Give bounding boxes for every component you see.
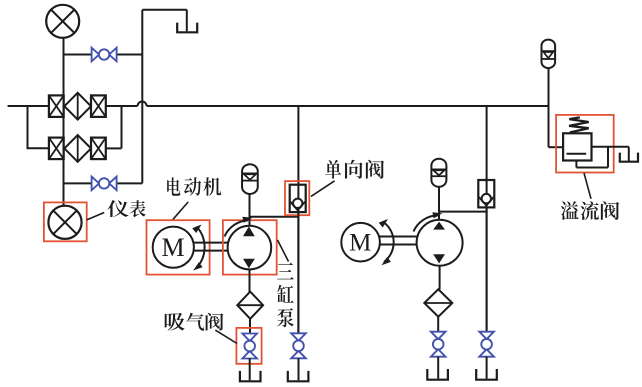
shaft coupling M2-P2 (380, 237, 417, 245)
wire: accumulator A1 to pump P1 top (249, 194, 251, 226)
flow meter FM2 left box (49, 138, 64, 160)
wire: P2 outlet branch to check valve CV2 (439, 211, 487, 213)
accumulator A2 (431, 159, 446, 187)
red highlight box: motor M1 (147, 220, 210, 274)
suction filter F2 (424, 289, 452, 316)
motor M1 letter (161, 233, 184, 262)
suction valve SV2 (blue) (431, 332, 446, 357)
triplex pump P1 circle (228, 226, 272, 270)
wire: main line down through check valve CV2 (486, 106, 488, 332)
wire: P1 outlet branch to check valve CV1 (250, 216, 299, 218)
pump P1 inlet triangle (down) (243, 259, 255, 269)
label 溢流阀 (561, 201, 619, 220)
callout line from 吸气阀 label (215, 330, 237, 343)
wire: main header line right of jump (147, 105, 549, 107)
relief valve body (563, 133, 591, 160)
flow meter FM1 diamond (64, 93, 91, 120)
wire: SV1 to tank T1 (249, 358, 251, 380)
red highlight box: 单向阀 (285, 181, 309, 215)
globe valve V2 (blue) (92, 177, 117, 191)
callout line to 溢流阀 label (584, 173, 591, 199)
wire: FM2 right link up to main line (106, 106, 122, 148)
flow meter FM1 left box (49, 95, 64, 117)
callout line to 单向阀 label (311, 181, 335, 197)
check valve CV1 (290, 185, 306, 212)
callout line to 仪表 label (87, 213, 105, 220)
svg-text:M: M (349, 230, 371, 257)
drain valve DV2 (blue) (479, 332, 494, 357)
svg-text:M: M (161, 233, 184, 262)
flow meter FM2 right box (91, 138, 106, 160)
flow meter FM1 right box (91, 95, 106, 117)
wire: SV2 to tank T3 (437, 357, 439, 379)
pump P2 rotation arc (414, 212, 443, 231)
shaft coupling M1-P1 (194, 243, 228, 251)
wire: outlet drop into tank T5 (628, 147, 630, 161)
electric motor M2 circle (341, 223, 380, 262)
wire: main header line left of jump (8, 105, 138, 107)
wire: riser to relief valve inlet (549, 146, 564, 148)
red highlight box: 吸气阀 (236, 328, 261, 364)
pump P1 rotation arc (225, 217, 253, 237)
wire: P2 bottom to filter F2 (439, 266, 441, 290)
accumulator A3 (542, 40, 556, 69)
label 吸气阀 (165, 313, 224, 331)
tank T5 (relief discharge) (620, 153, 638, 162)
duplex pump P2 circle (417, 220, 463, 266)
tank T3 (427, 369, 448, 380)
wire: PG1 down through meter rows to PG2 (63, 38, 65, 206)
relief valve spring (569, 117, 589, 132)
red highlight box: gauge 仪表 (44, 202, 87, 241)
red highlight box: 溢流阀 (556, 115, 614, 173)
tank T1 (240, 371, 261, 381)
callout line to 三缸泵 label (278, 240, 289, 262)
wire: relief valve drain loop (576, 147, 608, 168)
globe valve V1 (blue) (92, 48, 117, 62)
wire: accumulator A2 to pump P2 top (438, 187, 440, 220)
pump P2 outlet triangle (up) (433, 222, 445, 230)
wire: main line down through check valve CV1 (297, 106, 299, 334)
check valve CV2 (478, 180, 494, 207)
wire: relief valve outlet (592, 146, 629, 148)
pressure gauge PG1 (top-left) (46, 5, 79, 38)
wire: top run to tank T0 (142, 10, 187, 32)
suction valve SV1 (blue) (242, 334, 257, 359)
label 电动机 (167, 177, 221, 196)
wire: DV2 to tank T4 (486, 357, 488, 379)
accumulator A1 (242, 164, 258, 194)
wire: P1 bottom to filter F1 (249, 269, 251, 292)
motor M1 rotation arc (192, 225, 204, 271)
wire: CV1 down to drain valve DV1 (297, 212, 299, 334)
wire jump over vertical riser (138, 102, 147, 106)
wire: F1 to suction valve SV1 (249, 319, 251, 334)
wire: vertical riser x=142 (141, 10, 143, 184)
suction filter F1 (237, 292, 263, 319)
wire: accumulator A3 riser (548, 68, 550, 148)
tank T2 (288, 371, 309, 381)
wire: DV1 to tank T2 (298, 358, 300, 380)
motor M2 rotation arc (379, 219, 394, 265)
wire: branch to isolation valve V1 (64, 54, 143, 56)
pump P1 outlet triangle (up) (243, 227, 255, 237)
pressure gauge PG2 (仪表) (48, 206, 81, 239)
motor M2 letter (349, 230, 371, 257)
pump P2 inlet triangle (down) (433, 254, 445, 263)
drain valve DV1 (blue) (291, 333, 306, 358)
tank T0 (top) (177, 23, 197, 33)
label 单向阀 (325, 160, 384, 179)
wire: branch to isolation valve V2 (64, 182, 143, 184)
label 三缸泵 (vertical) (277, 263, 294, 328)
callout line from 电动机 label (173, 202, 189, 220)
label 仪表 (107, 200, 145, 217)
wire: CV2 down to drain valve DV2 (486, 207, 488, 331)
electric motor M1 circle (153, 227, 194, 268)
flow meter FM2 diamond (64, 135, 91, 162)
red highlight box: pump P1 (223, 220, 277, 274)
wire: left bypass branch down (27, 106, 49, 148)
wire: F2 to suction valve SV2 (437, 317, 439, 332)
tank T4 (476, 369, 497, 380)
